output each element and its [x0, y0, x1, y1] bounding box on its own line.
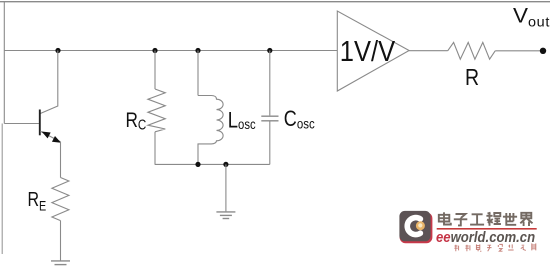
node tank bottom ground [223, 162, 228, 167]
wire collector [40, 51, 58, 114]
logo tagline strokes [454, 243, 536, 251]
wire left vertical (top rail to base) [3, 2, 5, 124]
wire Cosc top [269, 51, 271, 116]
logo red underline [437, 228, 537, 230]
node collector junction [55, 48, 60, 53]
transistor Q1 emitter arrow outward [52, 136, 61, 143]
wire main horizontal rail [4, 50, 337, 52]
wire Rc bottom [154, 132, 156, 165]
logo Chinese title strokes [439, 212, 533, 226]
node tank bottom L [195, 162, 200, 167]
svg-text:RC: RC [126, 108, 147, 132]
wire emitter vertical [60, 142, 62, 178]
svg-text:R: R [465, 64, 479, 90]
node Rc junction [152, 48, 157, 53]
capacitor COSC plate 1 [261, 115, 278, 117]
node Losc junction [195, 48, 200, 53]
op-amp U1 buffer 1V/V [337, 11, 409, 91]
wire Cosc bottom [269, 122, 271, 165]
transistor Q1 emitter [40, 131, 60, 142]
logo gold dot [416, 221, 425, 230]
char cheng [486, 213, 501, 226]
wire to ground G2 [225, 164, 227, 211]
eeworld logo group [399, 211, 432, 243]
ground G1 [51, 260, 70, 262]
node Cosc junction [267, 48, 272, 53]
resistor RC [148, 89, 165, 132]
char jie [520, 213, 532, 226]
logo white crescent C [407, 218, 420, 235]
wire base [4, 123, 39, 125]
logo dark square [399, 211, 430, 241]
logo red back square [400, 212, 433, 243]
wire Rc top [154, 51, 156, 90]
svg-text:1V/V: 1V/V [340, 34, 396, 67]
char dian [439, 212, 451, 224]
resistor R [448, 42, 496, 59]
left border remnant [1, 124, 3, 255]
node Vout terminal [540, 48, 546, 54]
wire to output [495, 50, 541, 52]
svg-text:RE: RE [28, 188, 47, 213]
wire amp output [409, 50, 448, 52]
capacitor COSC plate 2 [261, 120, 278, 122]
svg-text:Cosc: Cosc [284, 107, 315, 131]
transistor Q1 base bar [39, 110, 41, 136]
resistor RE [52, 178, 69, 221]
char gong [470, 214, 484, 224]
svg-text:eeworld.com.cn: eeworld.com.cn [436, 228, 535, 245]
transistor Q1 emitter arrow toward base [42, 132, 51, 139]
inductor LOSC [198, 96, 223, 165]
wire Losc top [197, 51, 199, 96]
top border line [0, 1, 550, 3]
char shi [503, 213, 517, 225]
svg-text:Vout: Vout [513, 3, 550, 29]
wire tank bottom [155, 163, 270, 165]
wire RE to ground [60, 221, 62, 261]
ground G2 [216, 211, 235, 213]
char zi [454, 214, 468, 225]
svg-text:Losc: Losc [228, 108, 256, 133]
